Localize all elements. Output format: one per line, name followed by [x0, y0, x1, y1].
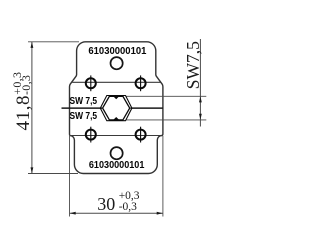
svg-text:30: 30 — [97, 194, 115, 214]
svg-text:SW 7,5: SW 7,5 — [70, 111, 98, 122]
svg-text:61030000101: 61030000101 — [88, 46, 146, 57]
svg-text:-0,3: -0,3 — [19, 75, 33, 95]
svg-text:SW 7,5: SW 7,5 — [70, 96, 98, 107]
svg-text:61030000101: 61030000101 — [89, 160, 145, 171]
svg-text:-0,3: -0,3 — [119, 201, 137, 213]
svg-text:+0,3: +0,3 — [119, 190, 140, 202]
svg-text:41,8: 41,8 — [13, 95, 34, 131]
svg-text:SW7,5: SW7,5 — [183, 41, 203, 89]
